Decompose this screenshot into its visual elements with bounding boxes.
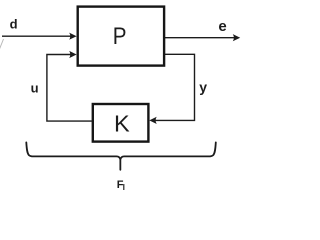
block K xyxy=(93,104,149,142)
wire u vertical+horizontals (K output back to P) xyxy=(47,55,92,122)
block P xyxy=(78,7,164,66)
arrowhead e xyxy=(233,34,240,41)
wire d input xyxy=(2,35,72,37)
svg-text:l: l xyxy=(123,182,125,192)
arrowhead y into K xyxy=(149,117,156,124)
underbrace xyxy=(26,142,216,169)
svg-text:P: P xyxy=(113,23,127,50)
wire e output xyxy=(164,37,235,39)
wire y from P down to K xyxy=(154,54,195,120)
svg-text:e: e xyxy=(218,18,226,35)
svg-text:y: y xyxy=(199,79,207,95)
stray faint mark left edge xyxy=(0,39,4,49)
svg-text:d: d xyxy=(10,17,18,32)
arrowhead u into P xyxy=(69,51,76,58)
arrowhead d into P xyxy=(69,33,76,40)
svg-text:u: u xyxy=(31,81,39,96)
svg-text:K: K xyxy=(114,111,130,137)
